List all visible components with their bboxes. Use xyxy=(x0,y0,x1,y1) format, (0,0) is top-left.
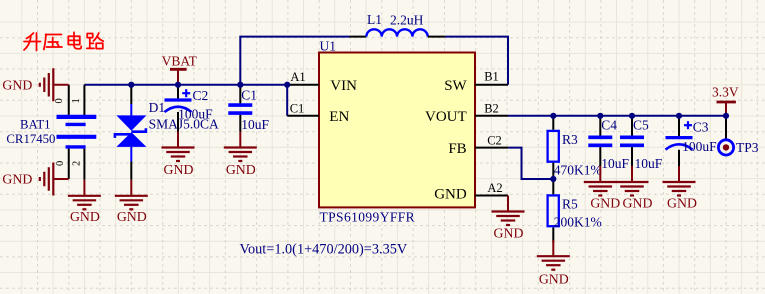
svg-text:C4: C4 xyxy=(601,118,617,133)
svg-text:GND: GND xyxy=(494,225,524,240)
svg-text:R5: R5 xyxy=(562,197,578,212)
svg-text:B2: B2 xyxy=(484,102,499,116)
ground GND under battery xyxy=(68,180,101,224)
svg-text:D1: D1 xyxy=(149,100,166,115)
wire EN drop xyxy=(286,85,288,116)
svg-text:100uF: 100uF xyxy=(682,139,717,154)
svg-text:VBAT: VBAT xyxy=(162,53,198,68)
svg-text:0: 0 xyxy=(54,98,65,103)
svg-text:VOUT: VOUT xyxy=(425,109,467,125)
value 470K1% xyxy=(554,162,602,177)
junction C5/VOUT xyxy=(629,113,635,119)
svg-text:U1: U1 xyxy=(320,39,337,54)
wire FB net xyxy=(508,148,553,179)
value 10uF (C1) xyxy=(241,117,269,132)
value TPS61099YFFR xyxy=(320,210,416,225)
ground GND under C3 xyxy=(663,166,697,210)
capacitor C4 10uF xyxy=(588,116,612,166)
svg-text:GND: GND xyxy=(623,195,653,210)
junction C1/main xyxy=(237,82,243,88)
pin number 0 (top) xyxy=(54,98,65,103)
note Vout formula xyxy=(240,242,408,258)
resistor R5 200K1% xyxy=(548,179,559,243)
designator C4 xyxy=(601,118,617,133)
title text 升压电路 xyxy=(24,32,103,50)
wire main VBAT net (battery to VIN) xyxy=(84,84,287,86)
value 10uF (C4) xyxy=(601,156,629,171)
svg-text:CR17450: CR17450 xyxy=(6,132,55,146)
svg-text:C2: C2 xyxy=(193,88,209,103)
pin B1 SW xyxy=(444,69,508,94)
capacitor C2 100uF xyxy=(165,85,192,132)
pin number 0 (bottom) xyxy=(55,161,66,166)
svg-text:100uF: 100uF xyxy=(178,107,213,122)
ground GND under R5 xyxy=(537,240,570,287)
value 100uF (C3) xyxy=(682,139,717,154)
svg-text:200K1%: 200K1% xyxy=(554,215,602,230)
svg-text:R3: R3 xyxy=(562,132,578,147)
svg-text:C2: C2 xyxy=(487,133,502,147)
value 2.2uH xyxy=(390,12,424,27)
ground GND bottom-left xyxy=(2,163,68,196)
ground GND under C5 xyxy=(616,166,653,210)
capacitor C5 10uF xyxy=(620,116,644,166)
value 200K1% xyxy=(554,215,602,230)
svg-text:GND: GND xyxy=(590,195,620,210)
pin A1 VIN xyxy=(287,70,357,94)
svg-text:BAT1: BAT1 xyxy=(20,117,51,131)
svg-text:2.2uH: 2.2uH xyxy=(390,12,424,27)
svg-text:Vout=1.0(1+470/200)=3.35V: Vout=1.0(1+470/200)=3.35V xyxy=(240,242,408,258)
designator C2 xyxy=(193,88,209,103)
pin C2 FB xyxy=(448,133,508,157)
value 10uF (C5) xyxy=(635,156,663,171)
junction C3/VOUT xyxy=(676,113,682,119)
svg-text:GND: GND xyxy=(539,272,569,287)
svg-text:2: 2 xyxy=(71,161,82,166)
ground GND at pin A2 xyxy=(492,196,525,241)
svg-text:C5: C5 xyxy=(633,118,649,133)
svg-text:TP3: TP3 xyxy=(736,140,759,155)
designator U1 xyxy=(320,39,337,54)
power port VBAT xyxy=(162,53,198,84)
junction C4/VOUT xyxy=(597,113,603,119)
svg-text:EN: EN xyxy=(329,109,349,125)
capacitor C3 100uF xyxy=(666,116,693,166)
svg-text:C1: C1 xyxy=(241,88,257,103)
svg-text:GND: GND xyxy=(117,209,147,224)
svg-text:B1: B1 xyxy=(484,69,499,83)
ground GND top-left xyxy=(2,68,68,101)
capacitor C1 10uF xyxy=(228,85,252,132)
inductor L1 2.2uH xyxy=(350,29,445,36)
pin B2 VOUT xyxy=(425,102,508,125)
svg-text:0: 0 xyxy=(55,161,66,166)
svg-text:SW: SW xyxy=(444,78,467,94)
pin number 1 xyxy=(71,98,82,103)
diode value SMAJ5.0CA xyxy=(149,116,219,131)
svg-text:GND: GND xyxy=(434,187,467,203)
diode designator D1 xyxy=(149,100,166,115)
designator R5 xyxy=(562,197,578,212)
pin C1 EN xyxy=(287,102,349,125)
battery value CR17450 xyxy=(6,132,55,146)
battery BAT1 CR17450 xyxy=(57,85,97,180)
value 100uF (C2) xyxy=(178,107,213,122)
junction D1/main xyxy=(128,82,134,88)
svg-text:GND: GND xyxy=(2,172,32,187)
pin number 2 xyxy=(71,161,82,166)
wire VOUT net xyxy=(508,115,726,117)
power port 3.3V xyxy=(712,84,739,115)
designator R3 xyxy=(562,132,578,147)
svg-text:10uF: 10uF xyxy=(601,156,629,171)
svg-text:A1: A1 xyxy=(290,70,305,84)
designator C1 xyxy=(241,88,257,103)
svg-text:GND: GND xyxy=(2,77,32,92)
svg-text:GND: GND xyxy=(164,162,194,177)
junction VBAT/main xyxy=(175,82,181,88)
svg-text:GND: GND xyxy=(70,209,100,224)
svg-text:1: 1 xyxy=(71,98,82,103)
test point TP3 xyxy=(718,116,758,155)
ground GND under C2 xyxy=(162,132,195,177)
svg-text:FB: FB xyxy=(448,141,466,157)
svg-text:10uF: 10uF xyxy=(635,156,663,171)
designator C5 xyxy=(633,118,649,133)
svg-text:3.3V: 3.3V xyxy=(712,84,739,99)
ground GND under C4 xyxy=(584,166,620,210)
ground GND under C1 xyxy=(224,132,257,177)
svg-text:470K1%: 470K1% xyxy=(554,162,602,177)
junction R3/VOUT xyxy=(550,113,556,119)
svg-text:A2: A2 xyxy=(487,181,502,195)
designator C3 xyxy=(693,120,709,135)
ground GND under D1 xyxy=(115,180,148,224)
junction FB/R3/R5 xyxy=(550,176,556,182)
designator L1 xyxy=(367,12,382,27)
svg-text:10uF: 10uF xyxy=(241,117,269,132)
junction A1/EN xyxy=(284,82,290,88)
svg-text:GND: GND xyxy=(667,195,697,210)
pin A2 GND xyxy=(434,181,508,203)
resistor R3 470K1% xyxy=(548,116,559,179)
svg-text:L1: L1 xyxy=(367,12,382,27)
svg-text:C3: C3 xyxy=(693,120,709,135)
svg-text:TPS61099YFFR: TPS61099YFFR xyxy=(320,210,416,225)
wire inductor to SW xyxy=(445,37,508,85)
svg-text:C1: C1 xyxy=(290,102,305,116)
svg-text:GND: GND xyxy=(226,162,256,177)
junction 3.3V/TP3 xyxy=(723,113,729,119)
op-amp U1 TPS61099YFFR body xyxy=(319,53,475,208)
battery designator BAT1 xyxy=(20,117,51,131)
diode D1 SMAJ5.0CA TVS xyxy=(115,85,146,180)
svg-text:VIN: VIN xyxy=(330,78,357,94)
wire up to inductor xyxy=(240,37,349,85)
